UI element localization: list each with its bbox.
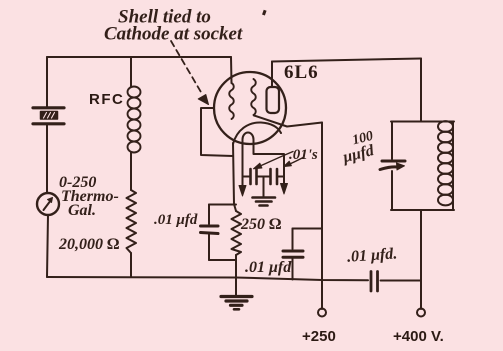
capacitor .01 ufd screen bypass	[283, 229, 322, 280]
shell tie stub	[201, 108, 233, 156]
heater hairpin leads	[243, 133, 285, 173]
heater right lead with arrow	[283, 170, 285, 184]
svg-text:Gal.: Gal.	[68, 202, 96, 219]
ground main	[221, 297, 252, 310]
cathode of V1	[233, 122, 281, 144]
wire RFC to resistor	[130, 152, 132, 190]
wire left vertical mid	[46, 125, 48, 194]
wire plate top to tank	[272, 59, 421, 62]
wire bottom horizontal rail right part	[381, 280, 422, 282]
leader arrow .01's left	[254, 152, 294, 169]
heater left lead with arrow	[242, 172, 244, 186]
resistor 250 ohm cathode	[232, 211, 242, 255]
wire RFC top drop	[130, 57, 132, 87]
tank bottom rail	[391, 209, 454, 211]
svg-text:+400 V.: +400 V.	[393, 328, 444, 345]
capacitor .01 ufd cathode bypass	[201, 205, 237, 261]
wire left vertical lower	[47, 215, 48, 277]
wire heater center tap to ground	[263, 177, 265, 198]
capacitor .01 heater bypass left	[243, 169, 264, 184]
label 100 uufd	[337, 129, 378, 167]
terminal +250	[318, 309, 326, 317]
svg-text:+250: +250	[302, 328, 336, 345]
plate lead	[271, 62, 273, 88]
svg-text:250 Ω: 250 Ω	[240, 216, 281, 233]
wire cathode resistor to ground	[235, 255, 237, 296]
svg-text:.01 μfd.: .01 μfd.	[347, 245, 398, 265]
terminal +400	[417, 309, 425, 317]
wire left vertical upper	[46, 57, 48, 107]
resistor 20000 ohm grid leak	[127, 190, 137, 253]
control grid of V1	[229, 83, 234, 119]
svg-text:.01's: .01's	[289, 147, 318, 163]
inductor tank coil	[438, 121, 453, 210]
capacitor .01 ufd series B+	[371, 272, 378, 292]
svg-text:RFC: RFC	[89, 91, 124, 108]
wire top-left horizontal	[47, 56, 231, 58]
plate of V1	[267, 87, 280, 113]
svg-text:.01 μfd: .01 μfd	[154, 212, 198, 228]
capacitor .01 heater bypass right	[264, 169, 285, 184]
screen grid lead to +250 line	[254, 116, 322, 127]
wire bottom horizontal rail left part	[47, 277, 368, 280]
leader dashed arrow shell	[171, 41, 209, 105]
wire +250 screen line	[321, 123, 323, 310]
wire tank bottom to +400	[420, 210, 422, 309]
svg-text:6L6: 6L6	[284, 62, 319, 83]
meter M1 thermo-galvanometer	[37, 193, 59, 215]
leader arrow .01's right	[284, 157, 305, 167]
ground heater center	[253, 198, 276, 206]
crystal Y1	[33, 108, 64, 124]
screen grid of V1	[251, 79, 256, 115]
inductor RFC choke	[128, 87, 141, 153]
cathode lead down	[233, 143, 236, 211]
svg-text:Cathode at socket: Cathode at socket	[104, 24, 243, 45]
svg-text:20,000 Ω: 20,000 Ω	[58, 236, 119, 253]
svg-text:.01 μfd: .01 μfd	[245, 259, 292, 276]
tube V1 6L6 envelope	[214, 72, 286, 144]
speck mark	[262, 10, 267, 16]
wire grid drop into tube	[230, 57, 233, 83]
tank top rail	[391, 121, 454, 123]
wire resistor to bottom rail	[130, 253, 132, 277]
capacitor 100 uufd variable	[380, 122, 405, 211]
